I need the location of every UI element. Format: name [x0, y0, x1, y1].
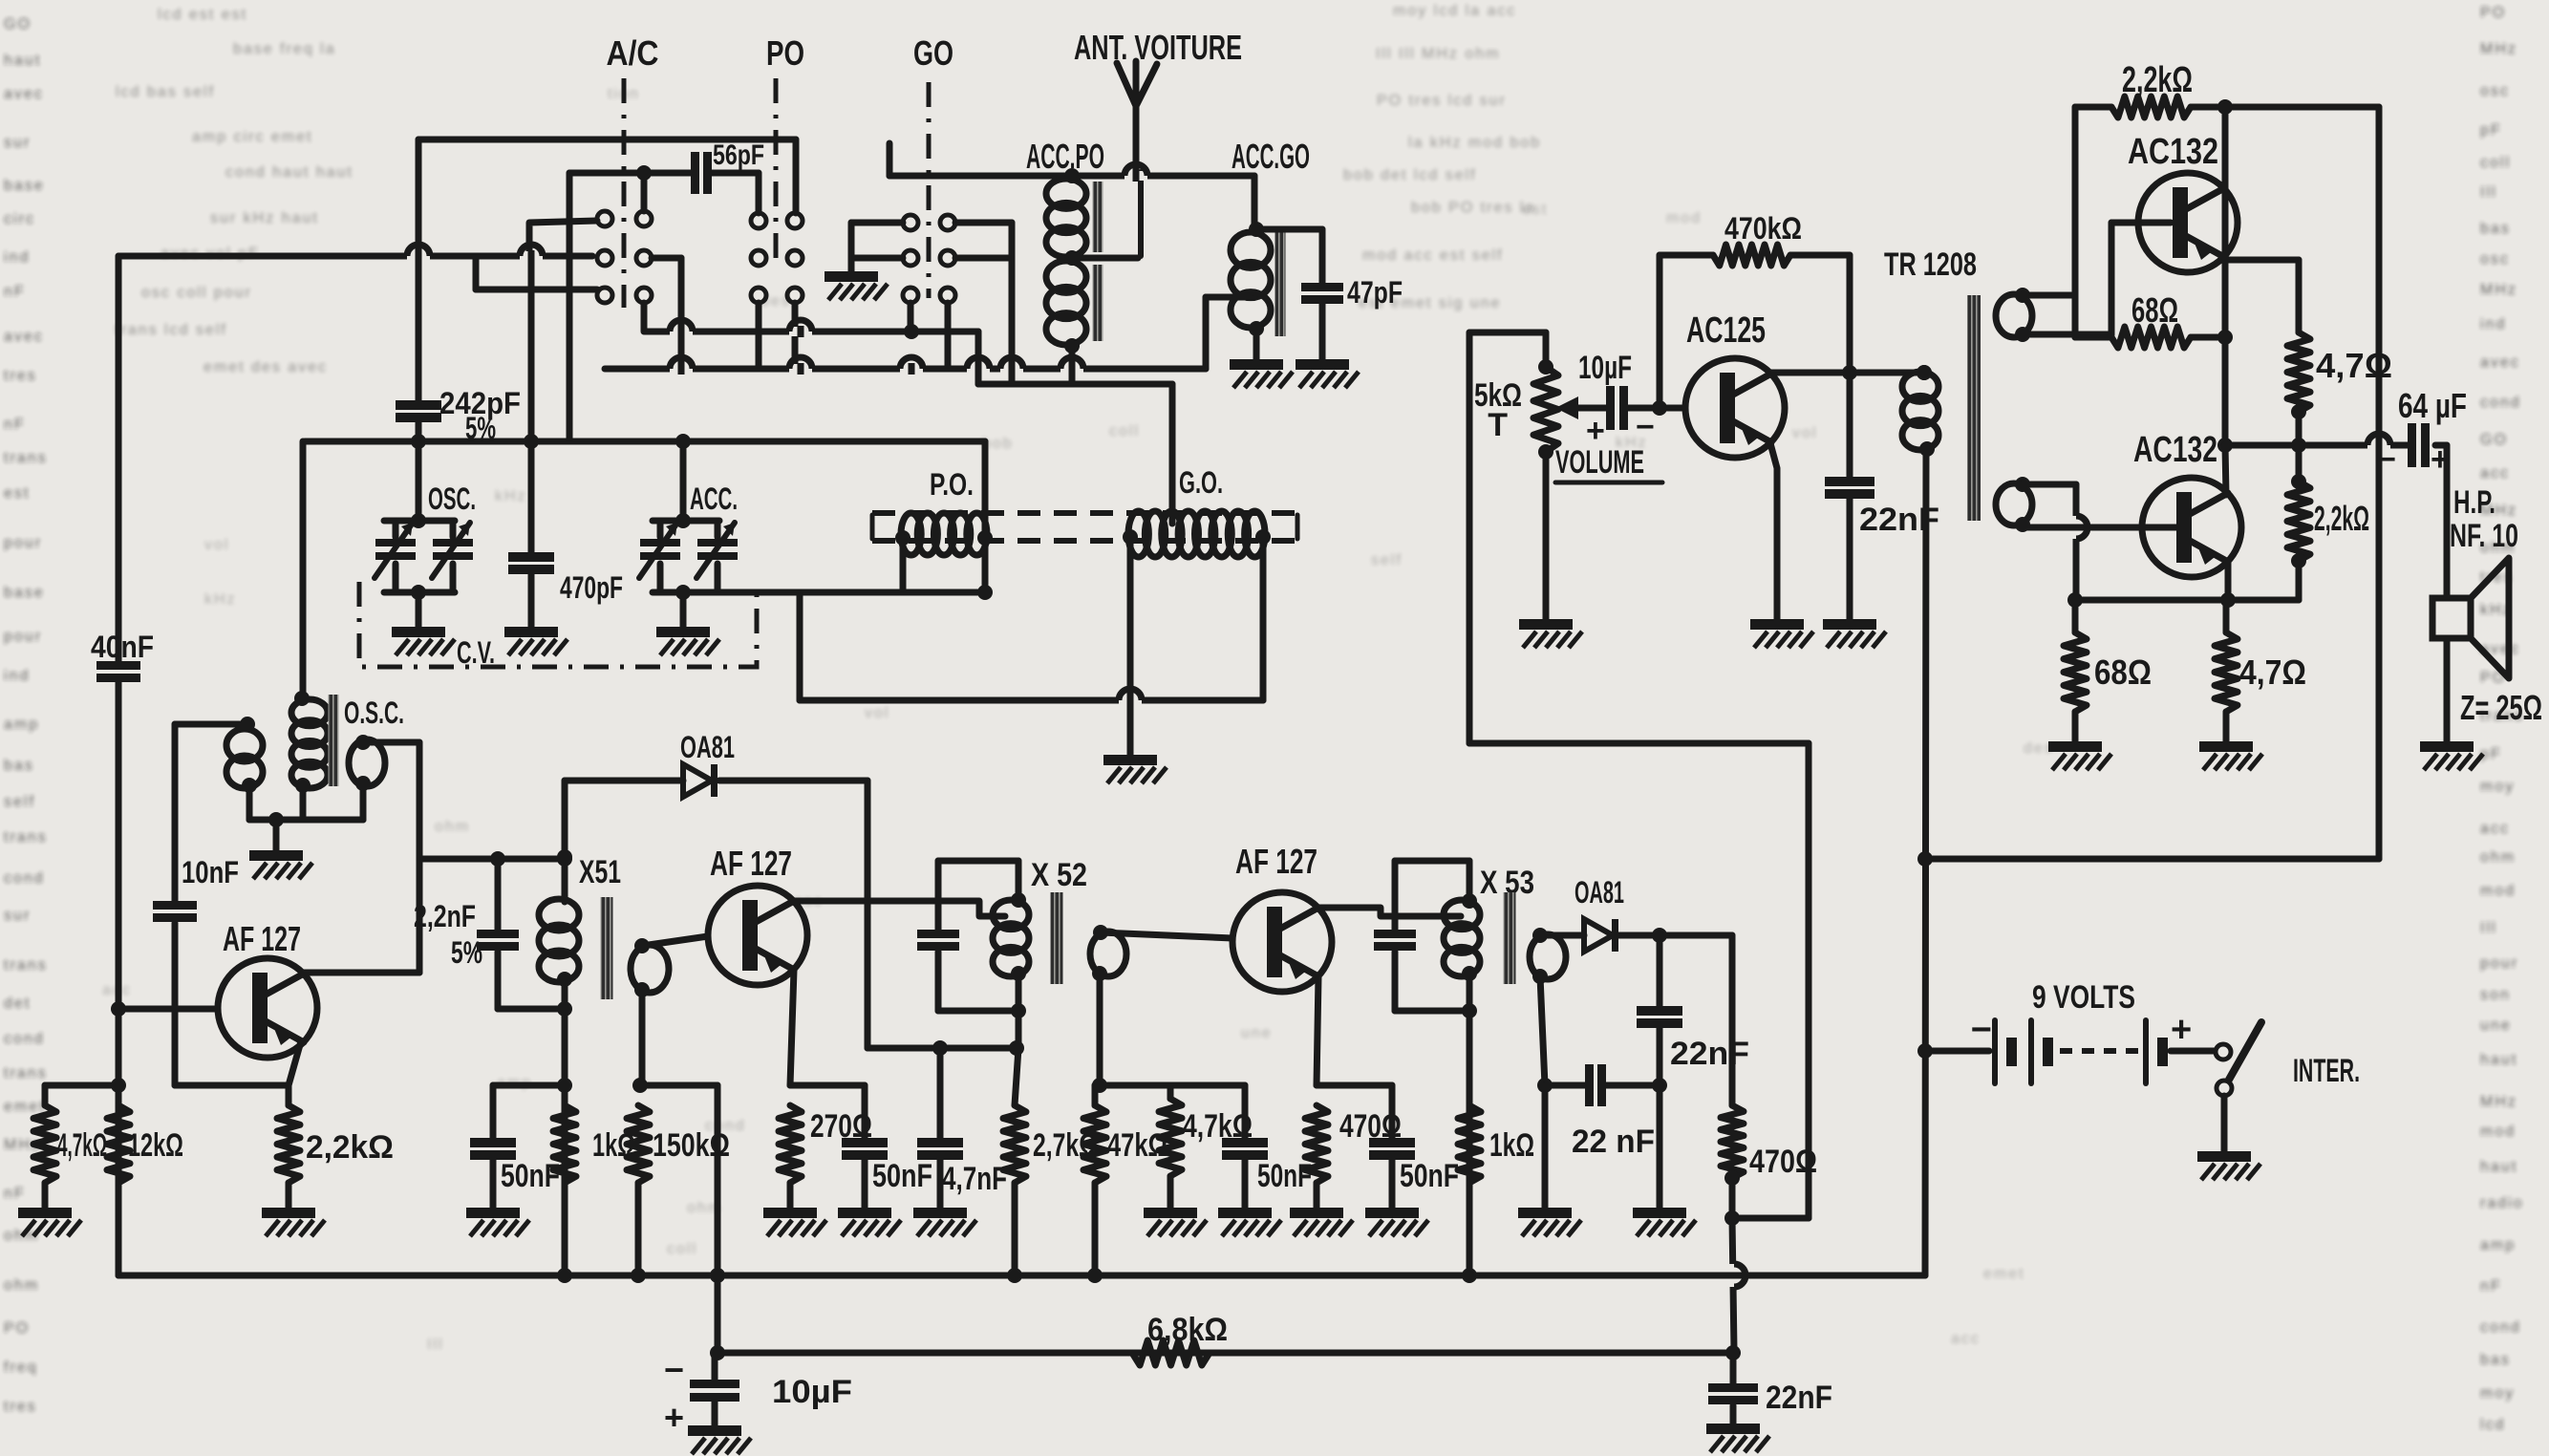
- svg-text:amp circ emet: amp circ emet: [192, 129, 312, 145]
- svg-text:50nF: 50nF: [1400, 1158, 1459, 1194]
- variable capacitor group OSC.: [375, 482, 476, 627]
- svg-text:haut: haut: [4, 53, 41, 69]
- capacitor 50nF third: [1222, 1085, 1312, 1208]
- svg-text:lcd est est: lcd est est: [158, 7, 247, 23]
- wire A/C bottom-right drop: [641, 303, 648, 332]
- resistor 4,7Ohm bottom: [2215, 600, 2306, 741]
- coil P.O.: [895, 441, 993, 592]
- wire hop row268 over 242pF drop: [407, 251, 430, 261]
- svg-text:avec: avec: [4, 86, 44, 102]
- wire sec2-top rail: [2023, 484, 2076, 600]
- svg-text:pour: pour: [4, 535, 42, 551]
- ground emitter AC125: [1750, 619, 1804, 630]
- svg-text:base freq la: base freq la: [233, 41, 336, 57]
- wire hop row268 over 470pF drop: [520, 251, 543, 261]
- svg-text:−: −: [664, 1350, 684, 1389]
- svg-text:AF 127: AF 127: [710, 844, 792, 883]
- wire X53 sec bottom: [1537, 976, 1553, 1208]
- ground potentiometer: [1519, 619, 1573, 630]
- wire X52 sec top to base: [1101, 932, 1232, 938]
- wire collector AC125: [1770, 365, 1932, 380]
- svg-text:amp: amp: [2480, 1237, 2516, 1253]
- wire emitter AF127-2: [790, 970, 794, 1085]
- capacitor 22nF second: [1545, 1064, 1660, 1160]
- svg-text:tres: tres: [4, 1399, 37, 1415]
- svg-text:nF: nF: [4, 417, 26, 433]
- wire GO bottom drops: [910, 303, 948, 369]
- svg-text:−: −: [1636, 409, 1655, 445]
- wire OA81 to AGC row: [865, 781, 871, 1048]
- wire PO bottom drops: [759, 303, 795, 369]
- coil G.O.: [1123, 384, 1271, 557]
- wire supply row y899: [1925, 856, 2379, 863]
- ground 4,7kOhm second: [1144, 1208, 1197, 1218]
- wire feedback loop: [1469, 332, 1809, 1218]
- resistor 4,7Ohm top: [2287, 332, 2392, 453]
- ground 50nF first: [466, 1208, 520, 1218]
- svg-text:OSC.: OSC.: [428, 482, 476, 516]
- svg-text:GO: GO: [4, 16, 32, 32]
- svg-text:6,8kΩ: 6,8kΩ: [1147, 1312, 1228, 1348]
- resistor 4,7kOhm: [33, 1085, 107, 1208]
- coil ACC.PO: [1026, 137, 1104, 353]
- svg-text:AF 127: AF 127: [1235, 842, 1317, 881]
- ground 47pF: [1296, 359, 1349, 370]
- resistor 470kOhm: [1660, 211, 1850, 408]
- wire OSC row462 to primary: [300, 441, 307, 698]
- wire hop output row over rail: [2367, 440, 2390, 450]
- svg-text:ohm: ohm: [4, 1277, 39, 1294]
- svg-text:C.V.: C.V.: [457, 635, 495, 670]
- svg-text:2,2nF: 2,2nF: [414, 899, 476, 933]
- svg-text:+: +: [1586, 413, 1605, 449]
- wire row y347: [645, 324, 978, 384]
- svg-text:amp: amp: [4, 717, 39, 733]
- svg-text:acc: acc: [1951, 1331, 1981, 1347]
- svg-text:self: self: [4, 794, 35, 810]
- wire A/C right contact drop: [641, 173, 648, 211]
- svg-text:P.O.: P.O.: [930, 467, 974, 502]
- svg-text:cond: cond: [2480, 1319, 2521, 1336]
- resistor 47kOhm: [1083, 1085, 1167, 1275]
- switch bank PO contacts: [751, 213, 803, 303]
- svg-text:12kΩ: 12kΩ: [128, 1127, 183, 1164]
- wire OSC feedback to 10nF: [175, 724, 247, 901]
- svg-text:9 VOLTS: 9 VOLTS: [2032, 979, 2135, 1016]
- switch bank A/C contacts: [597, 211, 652, 303]
- svg-text:acc: acc: [2480, 465, 2510, 482]
- svg-text:bob det lcd self: bob det lcd self: [1343, 167, 1477, 183]
- wire sec-top to 2,2k rail: [2023, 107, 2075, 337]
- wire ACC.GO bottom: [1253, 329, 1260, 359]
- svg-text:ind: ind: [4, 249, 30, 266]
- svg-text:avec: avec: [4, 329, 44, 345]
- potentiometer 5kOhm volume: [1474, 359, 1606, 619]
- svg-text:5%: 5%: [451, 935, 482, 970]
- capacitor 50nF second: [842, 1085, 932, 1208]
- resistor 2,7kOhm: [1003, 1105, 1098, 1275]
- wire left rail: [116, 256, 122, 1275]
- transistor AF127 third: [1232, 842, 1332, 992]
- svg-text:Ill: Ill: [2480, 184, 2497, 201]
- ground 50nF fourth: [1365, 1208, 1419, 1218]
- svg-text:trans lcd self: trans lcd self: [115, 322, 227, 338]
- wire collector AF127-3: [1317, 908, 1461, 916]
- resistor 2,2kOhm emitter: [277, 1085, 394, 1208]
- capacitor 10uF first: [1578, 350, 1685, 449]
- svg-text:det: det: [4, 996, 31, 1012]
- svg-text:OA81: OA81: [1574, 875, 1624, 910]
- svg-text:emet: emet: [1983, 1266, 2025, 1282]
- svg-text:cond: cond: [4, 1031, 45, 1047]
- switch axis GO: [927, 82, 932, 298]
- ground 10uF: [688, 1425, 741, 1436]
- ground O.S.C.: [249, 850, 303, 861]
- svg-text:bob PO tres la: bob PO tres la: [1411, 200, 1535, 216]
- resistor 12kOhm: [107, 1105, 183, 1183]
- transistor AC132 top: [2128, 132, 2238, 272]
- wire row 1136 mid: [1095, 1082, 1245, 1089]
- wire ACC.GO left tap: [1206, 297, 1250, 369]
- svg-text:freq: freq: [4, 1360, 38, 1376]
- svg-text:47kΩ: 47kΩ: [1107, 1127, 1167, 1164]
- capacitor 470pF: [508, 552, 623, 627]
- svg-text:2,2kΩ: 2,2kΩ: [2122, 60, 2193, 100]
- resistor 150kOhm: [627, 1085, 730, 1275]
- svg-text:TR 1208: TR 1208: [1884, 246, 1977, 283]
- transistor AF127 second: [708, 844, 807, 985]
- wire row y620: [653, 585, 993, 600]
- svg-text:AC125: AC125: [1686, 310, 1766, 351]
- wire OSC drop from row462: [416, 441, 422, 521]
- wire ACC.PO tap: [1072, 255, 1138, 262]
- wire lower emitter row: [2067, 592, 2299, 608]
- ground speaker: [2420, 741, 2474, 752]
- resistor 2,2kOhm top: [2075, 60, 2233, 118]
- svg-text:Ill Ill MHz ohm: Ill Ill MHz ohm: [1376, 46, 1500, 62]
- svg-text:ohm: ohm: [2480, 849, 2516, 866]
- wire collector AF127-2: [793, 901, 1005, 916]
- wire collector AC132 bottom: [2225, 445, 2226, 495]
- svg-text:MHz: MHz: [2480, 282, 2517, 298]
- svg-text:circ: circ: [4, 211, 35, 227]
- svg-text:470pF: 470pF: [560, 570, 623, 605]
- wire X52 to 2,7k: [1015, 1048, 1018, 1105]
- svg-text:vol: vol: [865, 705, 889, 721]
- svg-text:PO: PO: [766, 33, 804, 73]
- svg-text:+: +: [2171, 1010, 2192, 1050]
- ground X53 sec: [1518, 1208, 1572, 1218]
- svg-text:trans: trans: [4, 957, 48, 974]
- wire emitter AC132 bottom: [2225, 562, 2232, 600]
- transistor AF127 first: [218, 919, 317, 1058]
- svg-text:H.P.: H.P.: [2453, 484, 2495, 521]
- wire hop AC132 rail over base: [2071, 516, 2081, 539]
- battery 9 VOLTS: [1925, 979, 2215, 1083]
- svg-text:osc: osc: [2480, 83, 2510, 99]
- svg-text:pour: pour: [4, 629, 42, 645]
- ground 22nF third: [1706, 1424, 1760, 1434]
- wire row y386: [605, 366, 1206, 373]
- wire 470Ohm to bus2: [1732, 1218, 1734, 1351]
- svg-text:sur: sur: [4, 135, 31, 151]
- svg-text:47pF: 47pF: [1347, 275, 1403, 310]
- wire X51 sec bottom: [632, 990, 648, 1093]
- diode OA81 first: [680, 730, 735, 797]
- ground 50nF third: [1218, 1208, 1272, 1218]
- wire hop antenna crossing: [1125, 171, 1147, 181]
- svg-text:AC132: AC132: [2133, 430, 2217, 470]
- wire collector AF127-1: [303, 970, 419, 976]
- resistor 470Ohm second: [1721, 935, 1817, 1226]
- svg-text:A/C: A/C: [607, 33, 659, 73]
- svg-text:est: est: [4, 485, 30, 502]
- wire hop row347 crossings: [670, 320, 812, 337]
- wire 56pF row: [569, 165, 759, 181]
- wire emitter row AF127-2: [790, 1082, 865, 1089]
- svg-text:mod: mod: [1666, 210, 1702, 226]
- transistor AC125: [1685, 310, 1785, 458]
- wire G.O. left to ground: [1127, 537, 1134, 755]
- wire X51 sec to base: [642, 936, 708, 946]
- wire emitter AF127-1: [289, 1041, 301, 1085]
- svg-text:emet des avec: emet des avec: [203, 359, 328, 375]
- svg-text:4,7kΩ: 4,7kΩ: [57, 1127, 107, 1164]
- svg-text:22 nF: 22 nF: [1572, 1124, 1655, 1160]
- wire OSC secondary to X51 row: [363, 742, 419, 973]
- ground 68Ohm bottom: [2048, 741, 2102, 752]
- ground 50nF second: [838, 1208, 891, 1218]
- switch axis PO: [774, 78, 779, 260]
- svg-text:MHz: MHz: [2480, 41, 2517, 57]
- svg-text:mod: mod: [2480, 1124, 2516, 1140]
- capacitor 50nF first: [470, 1085, 565, 1208]
- svg-text:avec: avec: [2480, 354, 2520, 371]
- ground 4,7Ohm bottom: [2199, 741, 2253, 752]
- svg-text:osc coll pour: osc coll pour: [141, 285, 252, 301]
- svg-text:T: T: [1488, 407, 1508, 443]
- capacitor 56pF: [691, 139, 764, 194]
- svg-text:base: base: [4, 585, 45, 601]
- svg-text:AF 127: AF 127: [223, 919, 301, 958]
- svg-text:lcd bas self: lcd bas self: [116, 84, 215, 100]
- resistor 470Ohm first: [1305, 1105, 1402, 1208]
- ground 2,2kOhm: [262, 1208, 315, 1218]
- capacitor X52 tuning: [917, 930, 959, 938]
- svg-text:50nF: 50nF: [872, 1158, 932, 1194]
- resistor 68Ohm top: [2075, 290, 2225, 348]
- coil ACC.GO: [1231, 137, 1310, 336]
- svg-text:radio: radio: [2480, 1195, 2524, 1211]
- antenna ANT. VOITURE: [1117, 61, 1157, 256]
- svg-text:PO: PO: [2480, 5, 2506, 21]
- svg-text:Z= 25Ω: Z= 25Ω: [2460, 688, 2542, 727]
- svg-text:nF: nF: [4, 284, 26, 300]
- svg-text:une: une: [1241, 1025, 1273, 1041]
- capacitor 22nF third: [1708, 1353, 1832, 1424]
- svg-text:cond: cond: [4, 870, 45, 887]
- svg-text:moy: moy: [2480, 779, 2515, 795]
- svg-text:bas: bas: [4, 758, 34, 774]
- resistor 68Ohm bottom: [2064, 600, 2152, 741]
- svg-text:VOLUME: VOLUME: [1555, 444, 1644, 481]
- transformer X51: [539, 849, 669, 1275]
- svg-text:vol: vol: [204, 537, 229, 553]
- ground 22nF first: [1633, 1208, 1686, 1218]
- wire base AC125: [1628, 400, 1685, 416]
- svg-text:68Ω: 68Ω: [2094, 653, 2152, 692]
- svg-text:ohm: ohm: [435, 819, 470, 835]
- svg-text:4,7Ω: 4,7Ω: [2316, 346, 2392, 385]
- gang box C.V.: [359, 582, 757, 670]
- wire row y268: [118, 253, 592, 260]
- ground 270Ohm: [763, 1208, 817, 1218]
- wire A/C mid-right stub: [652, 258, 681, 369]
- wire supply bus: [118, 1268, 1925, 1283]
- wire bias row: [45, 1078, 126, 1093]
- svg-text:nF: nF: [4, 1186, 26, 1202]
- svg-text:trans: trans: [4, 829, 48, 846]
- svg-text:22nF: 22nF: [1766, 1380, 1832, 1416]
- svg-text:coll: coll: [1109, 423, 1140, 439]
- svg-text:X 52: X 52: [1031, 857, 1087, 893]
- svg-text:50nF: 50nF: [1257, 1158, 1312, 1194]
- wire base AF127-1: [111, 1001, 216, 1017]
- svg-text:est: est: [1522, 202, 1548, 218]
- wire hop GO left over row733: [1119, 696, 1142, 705]
- svg-text:moy: moy: [2480, 1385, 2515, 1402]
- svg-text:GO: GO: [2480, 432, 2508, 448]
- resistor 6,8kOhm: [1132, 1312, 1228, 1365]
- capacitor 10uF second: [664, 1350, 852, 1437]
- capacitor 64uF: [2377, 386, 2467, 478]
- svg-text:kHz: kHz: [204, 591, 237, 608]
- ground 470Ohm first: [1290, 1208, 1343, 1218]
- ground ACC: [656, 627, 710, 637]
- wire collector rail AC132: [2217, 107, 2233, 453]
- svg-text:mod: mod: [2480, 883, 2516, 899]
- svg-text:kHz: kHz: [495, 488, 527, 504]
- svg-text:10nF: 10nF: [182, 855, 239, 889]
- svg-text:coll: coll: [2480, 155, 2511, 171]
- svg-text:haut: haut: [2480, 1159, 2517, 1175]
- switch axis A/C: [622, 78, 627, 308]
- wire 56pF left drop: [567, 173, 573, 441]
- svg-text:lcd: lcd: [2480, 1417, 2505, 1433]
- svg-text:10µF: 10µF: [1578, 350, 1632, 386]
- capacitor 22nF first: [1637, 935, 1749, 1208]
- wire decoupled bus: [710, 1345, 1741, 1360]
- svg-text:emet: emet: [4, 1099, 46, 1115]
- svg-text:vol: vol: [1792, 425, 1817, 441]
- speaker H.P. NF.10: [2432, 445, 2518, 741]
- wire row y733: [800, 537, 1263, 700]
- svg-text:5%: 5%: [465, 411, 496, 445]
- svg-text:OA81: OA81: [680, 730, 735, 764]
- capacitor 40nF: [91, 630, 154, 682]
- label VOLUME: [1555, 444, 1662, 482]
- svg-text:nF: nF: [2480, 1278, 2502, 1295]
- svg-text:ACC.: ACC.: [690, 482, 738, 516]
- svg-text:MHz: MHz: [2480, 1094, 2517, 1110]
- wire top rail right: [2225, 107, 2379, 859]
- svg-text:10µF: 10µF: [772, 1374, 852, 1410]
- wire PO left contact drop: [756, 173, 762, 213]
- variable capacitor group ACC.: [639, 441, 738, 627]
- svg-text:+: +: [664, 1398, 684, 1437]
- svg-text:mod acc est self: mod acc est self: [1362, 247, 1504, 264]
- svg-text:bas: bas: [2480, 221, 2511, 237]
- switch bank GO contacts: [903, 215, 955, 303]
- svg-text:trans: trans: [4, 450, 48, 466]
- svg-text:470kΩ: 470kΩ: [1724, 211, 1802, 246]
- capacitor X53 tuning: [1374, 930, 1416, 938]
- wire emitter AF127-3: [1317, 976, 1318, 1085]
- ground switch area: [825, 271, 878, 282]
- svg-text:self: self: [1371, 552, 1403, 568]
- svg-text:4,7Ω: 4,7Ω: [2239, 653, 2306, 692]
- ground 4,7kOhm: [18, 1208, 72, 1218]
- wire row y462: [305, 434, 985, 449]
- svg-text:sur kHz haut: sur kHz haut: [210, 210, 319, 226]
- wire hop supply bus crossing: [1729, 1264, 1739, 1287]
- wire PO top-right drop: [793, 139, 800, 213]
- svg-text:4,7nF: 4,7nF: [942, 1161, 1007, 1197]
- wire row y1056: [498, 1006, 565, 1013]
- wire GO top-left to ground: [851, 223, 903, 271]
- wire A/C top-left feed: [529, 221, 597, 256]
- wire 470pF drop: [528, 256, 535, 552]
- capacitor 2,2nF: [414, 859, 519, 1009]
- wire emitter AC125: [1770, 443, 1777, 619]
- svg-text:−: −: [1971, 1010, 1992, 1050]
- wire sec-bottom to base: [2023, 223, 2171, 334]
- capacitor 47pF: [1256, 229, 1403, 359]
- wire emitter row AF127-1: [175, 1082, 289, 1089]
- wire hop row386 crossings: [670, 357, 1083, 375]
- svg-text:ind: ind: [2480, 316, 2506, 332]
- svg-text:GO: GO: [913, 33, 953, 73]
- wire OSC ground row: [249, 783, 363, 850]
- svg-text:son: son: [2480, 987, 2511, 1003]
- capacitor 50nF fourth: [1369, 1085, 1459, 1208]
- resistor 270Ohm: [779, 1105, 872, 1208]
- svg-text:trans: trans: [4, 1065, 48, 1081]
- svg-text:22nF: 22nF: [1670, 1036, 1749, 1072]
- svg-text:sur: sur: [4, 908, 31, 924]
- capacitor 22nF AC125: [1825, 373, 1939, 619]
- wire 150k to 10uF branch: [710, 1085, 725, 1353]
- ground ACC.GO: [1230, 359, 1283, 370]
- svg-text:Ill: Ill: [427, 1337, 444, 1353]
- wire GO right column: [955, 223, 1012, 384]
- svg-text:PO tres lcd sur: PO tres lcd sur: [1377, 93, 1507, 109]
- transistor AC132 bottom: [2133, 430, 2241, 577]
- wire output row: [2225, 442, 2447, 449]
- svg-text:pF: pF: [2480, 122, 2502, 139]
- svg-text:NF. 10: NF. 10: [2450, 518, 2518, 554]
- wire row y303: [476, 256, 597, 289]
- svg-text:la kHz mod bob: la kHz mod bob: [1408, 135, 1541, 151]
- resistor 4,7kOhm second: [1159, 1085, 1253, 1208]
- svg-text:68Ω: 68Ω: [2131, 290, 2178, 330]
- svg-text:50nF: 50nF: [501, 1158, 560, 1194]
- wire row y899: [419, 851, 572, 867]
- wire antenna row y184: [889, 143, 1254, 176]
- wire diode out: [1618, 928, 1732, 943]
- resistor 1kOhm first: [553, 1105, 635, 1183]
- svg-text:coll: coll: [667, 1241, 697, 1257]
